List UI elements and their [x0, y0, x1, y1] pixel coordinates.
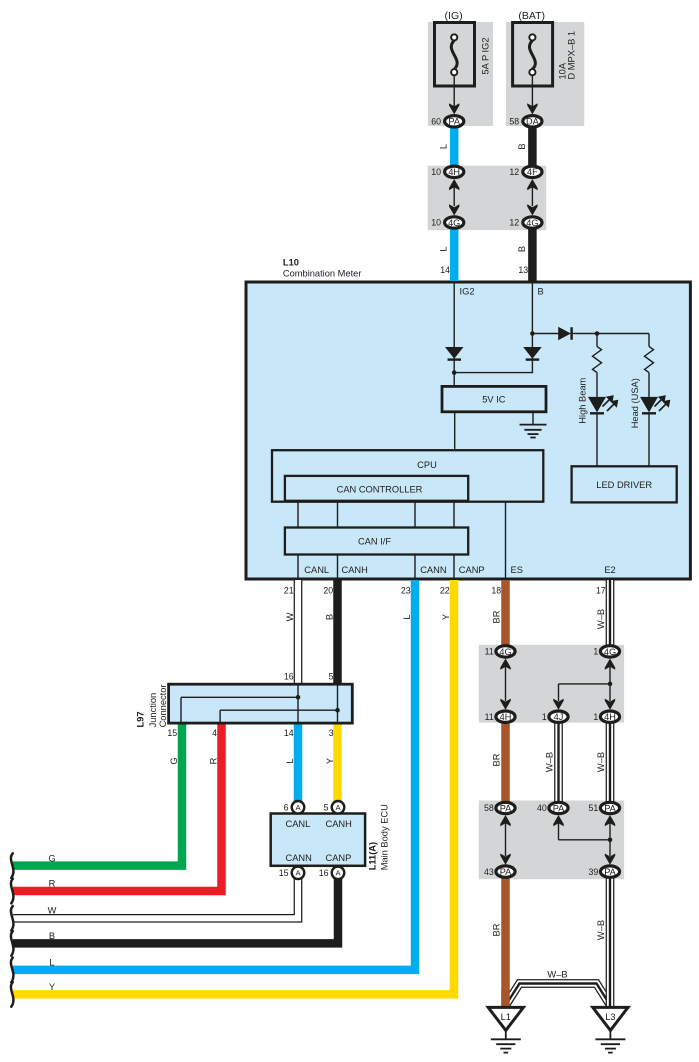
svg-text:B: B [517, 143, 527, 149]
svg-text:40: 40 [537, 803, 547, 813]
svg-text:CANP: CANP [326, 853, 352, 863]
svg-text:L97: L97 [136, 711, 146, 727]
svg-text:CAN I/F: CAN I/F [358, 537, 391, 547]
svg-text:Y: Y [441, 614, 451, 620]
svg-text:CANP: CANP [459, 565, 485, 575]
svg-text:W–B: W–B [596, 920, 606, 940]
svg-text:11: 11 [485, 647, 494, 657]
svg-text:3: 3 [329, 728, 334, 738]
svg-text:L: L [285, 758, 295, 763]
svg-text:12: 12 [509, 167, 519, 177]
svg-text:5: 5 [324, 802, 329, 812]
svg-text:4G: 4G [604, 647, 616, 657]
svg-text:5: 5 [328, 672, 333, 682]
svg-text:W–B: W–B [545, 752, 555, 772]
svg-text:4H: 4H [500, 712, 512, 722]
svg-text:21: 21 [284, 585, 294, 595]
svg-text:DA: DA [526, 117, 540, 127]
svg-text:Combination Meter: Combination Meter [283, 269, 362, 279]
svg-text:15: 15 [279, 868, 289, 878]
svg-text:CANL: CANL [304, 565, 329, 575]
svg-text:CANN: CANN [420, 565, 446, 575]
svg-text:PA: PA [553, 803, 565, 813]
svg-text:Main Body ECU: Main Body ECU [380, 804, 390, 870]
svg-text:16: 16 [319, 868, 329, 878]
svg-text:PA: PA [604, 867, 616, 877]
svg-text:4G: 4G [448, 218, 460, 228]
svg-text:B: B [538, 287, 544, 297]
svg-text:11: 11 [485, 712, 494, 722]
svg-text:R: R [49, 879, 56, 889]
svg-text:22: 22 [440, 585, 450, 595]
svg-text:4J: 4J [554, 712, 564, 722]
svg-text:(BAT): (BAT) [518, 10, 545, 22]
svg-text:PA: PA [604, 803, 616, 813]
svg-text:B: B [517, 246, 527, 252]
svg-text:Y: Y [325, 758, 335, 764]
svg-text:1: 1 [542, 712, 547, 722]
svg-text:Junction: Junction [148, 693, 158, 728]
svg-text:L1: L1 [501, 1012, 511, 1022]
svg-text:15: 15 [167, 728, 177, 738]
svg-text:16: 16 [284, 672, 294, 682]
svg-text:Connector: Connector [158, 684, 168, 727]
svg-text:B: B [49, 931, 55, 941]
svg-text:4: 4 [212, 728, 217, 738]
svg-text:43: 43 [484, 867, 494, 877]
svg-text:BR: BR [492, 610, 502, 623]
svg-text:L: L [439, 144, 449, 149]
svg-text:18: 18 [491, 585, 501, 595]
svg-text:E2: E2 [604, 565, 615, 575]
svg-text:58: 58 [484, 803, 494, 813]
svg-text:23: 23 [401, 585, 411, 595]
svg-text:14: 14 [284, 728, 294, 738]
svg-text:B: B [325, 614, 335, 620]
svg-text:L: L [402, 614, 412, 619]
svg-text:CANH: CANH [326, 819, 352, 829]
svg-text:6: 6 [284, 802, 289, 812]
svg-text:BR: BR [492, 753, 502, 766]
svg-text:W–B: W–B [596, 609, 606, 629]
svg-text:L: L [439, 246, 449, 251]
svg-text:Y: Y [49, 982, 55, 992]
svg-text:PA: PA [500, 803, 512, 813]
svg-text:W–B: W–B [596, 752, 606, 772]
svg-text:L: L [49, 958, 54, 968]
svg-text:60: 60 [431, 116, 441, 126]
svg-text:G: G [48, 854, 55, 864]
svg-text:W–B: W–B [547, 970, 567, 980]
svg-text:PA: PA [448, 117, 460, 127]
svg-text:20: 20 [323, 585, 333, 595]
svg-text:10: 10 [431, 218, 441, 228]
svg-text:4H: 4H [448, 167, 460, 177]
svg-text:4F: 4F [527, 167, 538, 177]
svg-text:CPU: CPU [417, 460, 437, 470]
svg-text:Head (USA): Head (USA) [630, 378, 640, 428]
svg-text:CANN: CANN [286, 853, 312, 863]
svg-text:G: G [169, 757, 179, 764]
svg-text:R: R [209, 757, 219, 764]
svg-text:17: 17 [596, 585, 606, 595]
svg-text:13: 13 [518, 265, 528, 275]
svg-text:10: 10 [431, 167, 441, 177]
svg-text:CANH: CANH [342, 565, 368, 575]
svg-text:W: W [285, 612, 295, 621]
svg-text:L3: L3 [605, 1012, 615, 1022]
svg-text:1: 1 [593, 712, 598, 722]
svg-text:12: 12 [509, 218, 519, 228]
svg-text:1: 1 [593, 647, 598, 657]
svg-text:ES: ES [511, 565, 523, 575]
svg-text:5V IC: 5V IC [482, 395, 506, 405]
svg-text:High Beam: High Beam [578, 377, 588, 423]
svg-text:W: W [48, 906, 57, 916]
svg-text:CAN CONTROLLER: CAN CONTROLLER [337, 484, 423, 494]
svg-text:39: 39 [589, 867, 599, 877]
svg-text:BR: BR [492, 923, 502, 936]
svg-text:58: 58 [509, 116, 519, 126]
svg-text:PA: PA [500, 867, 512, 877]
svg-text:51: 51 [589, 803, 599, 813]
svg-text:L11(A): L11(A) [368, 842, 378, 870]
svg-text:LED DRIVER: LED DRIVER [596, 480, 652, 490]
svg-text:4H: 4H [604, 712, 616, 722]
svg-text:4G: 4G [499, 647, 511, 657]
svg-text:CANL: CANL [286, 819, 311, 829]
svg-text:14: 14 [440, 265, 450, 275]
svg-text:IG2: IG2 [460, 287, 475, 297]
svg-text:L10: L10 [283, 258, 299, 268]
svg-text:4G: 4G [526, 218, 538, 228]
svg-text:D MPX–B 1: D MPX–B 1 [566, 31, 576, 80]
svg-text:5A P IG2: 5A P IG2 [480, 37, 490, 74]
svg-text:(IG): (IG) [445, 10, 463, 22]
